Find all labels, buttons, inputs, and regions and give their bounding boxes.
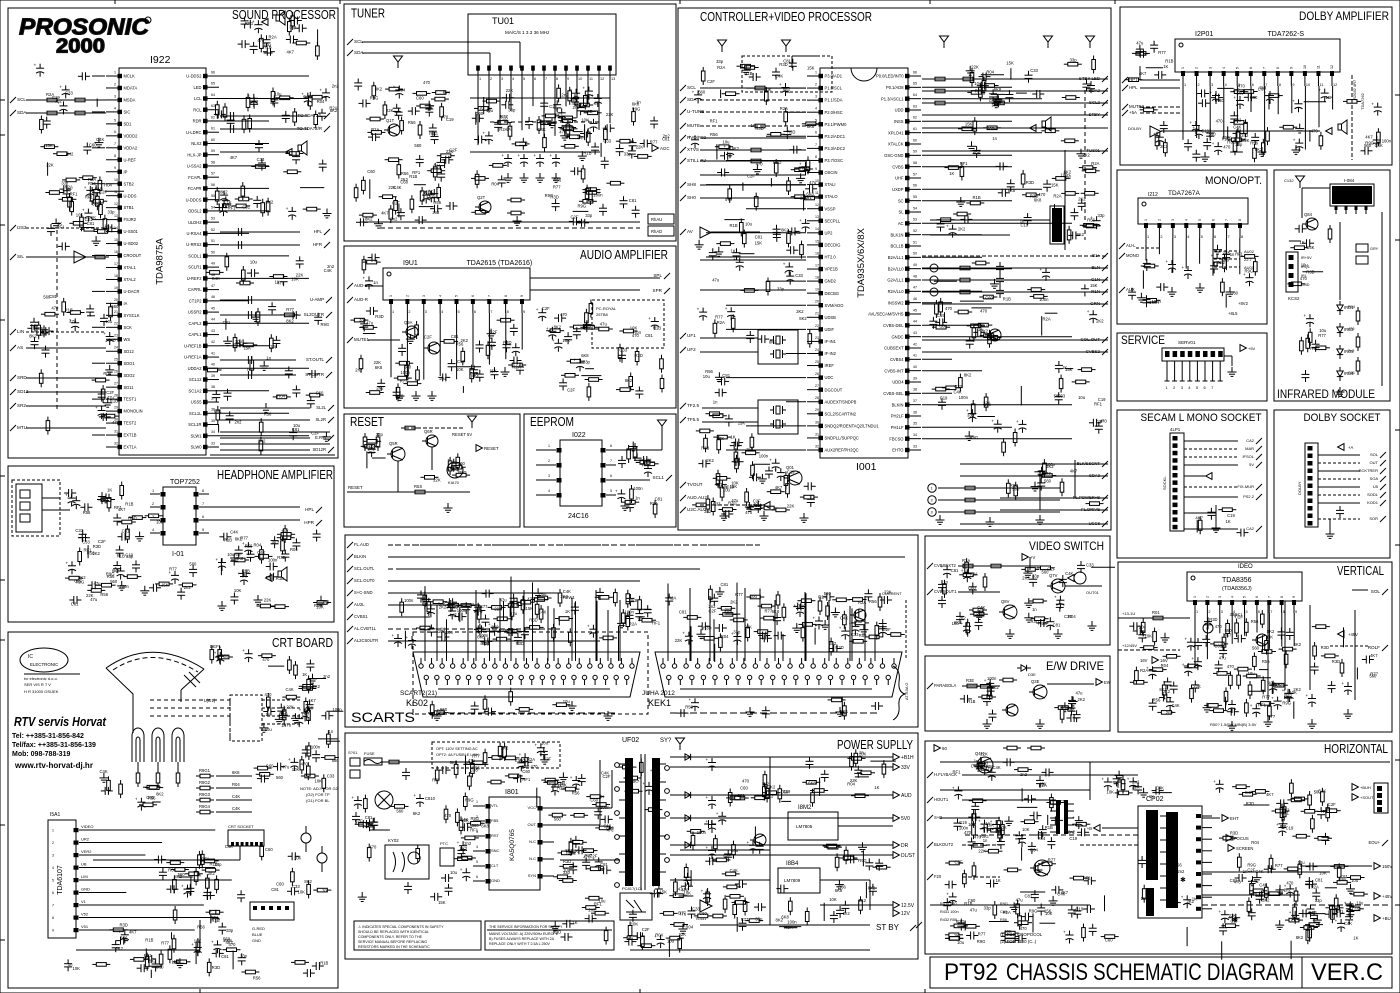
ground (1028, 598, 1030, 603)
net label AS (10, 345, 16, 351)
svg-text:22K: 22K (971, 65, 979, 70)
ground (718, 247, 720, 252)
svg-text:R3D: R3D (835, 645, 843, 650)
pin 3 (486, 834, 491, 839)
resistor R152 (696, 503, 706, 507)
wire (1215, 505, 1217, 523)
transistor Q4 (1256, 634, 1268, 646)
svg-text:+: + (769, 458, 772, 463)
svg-text:6K8: 6K8 (808, 781, 816, 786)
svg-text:1: 1 (815, 70, 817, 74)
diode D1 (1021, 665, 1027, 671)
svg-text:+: + (555, 107, 558, 112)
svg-text:6: 6 (1204, 385, 1207, 390)
transistor Q9A (406, 326, 418, 338)
svg-text:13: 13 (815, 215, 819, 219)
IC I9U1 (383, 268, 530, 300)
ground (431, 391, 433, 396)
wire (220, 419, 310, 421)
capacitor C191 (1210, 265, 1218, 267)
svg-text:KS02: KS02 (406, 698, 428, 708)
capacitor C84 (411, 107, 413, 115)
wire (1227, 126, 1229, 138)
pin 51 (203, 276, 208, 280)
net label LIN (10, 329, 16, 335)
resistor R174 (1086, 169, 1096, 173)
svg-text:2n2: 2n2 (368, 449, 376, 454)
svg-text:1K: 1K (1141, 896, 1146, 901)
svg-text:560: 560 (404, 364, 412, 369)
svg-text:XTALO: XTALO (825, 194, 838, 199)
ground (179, 958, 181, 963)
resistor R171 (1026, 193, 1036, 197)
connector arrow FOCUS (1226, 835, 1232, 842)
wire (774, 600, 776, 661)
electrolytic capacitor C169 (1019, 423, 1027, 425)
resistor R53 (281, 541, 285, 551)
svg-text:MONOLIN: MONOLIN (124, 409, 143, 414)
svg-text:6K8: 6K8 (806, 191, 814, 196)
svg-text:C132: C132 (1284, 178, 1294, 183)
capacitor C236 (983, 825, 985, 833)
svg-text:S+C-SND: S+C-SND (354, 590, 373, 595)
resistor R253 (1248, 685, 1252, 695)
svg-text:22K: 22K (386, 108, 394, 113)
svg-text:R1B: R1B (500, 115, 508, 120)
svg-text:2n2: 2n2 (588, 908, 596, 913)
svg-text:LCL: LCL (194, 96, 202, 101)
svg-text:C81: C81 (87, 221, 95, 226)
pin 9 (461, 664, 465, 668)
svg-text:DECBG: DECBG (825, 291, 840, 296)
svg-text:10u: 10u (541, 741, 549, 746)
net label SR2 (10, 403, 16, 409)
svg-text:SCART2(21): SCART2(21) (400, 690, 437, 697)
net label H.FLYBACK (927, 772, 933, 778)
svg-text:10u: 10u (723, 139, 731, 144)
resistor R12 (45, 312, 55, 316)
svg-text:2K2: 2K2 (1022, 576, 1030, 581)
svg-text:R1B: R1B (210, 862, 218, 867)
resistor R30 (266, 202, 270, 212)
svg-text:R56: R56 (1262, 659, 1270, 664)
svg-text:8K2: 8K2 (1294, 642, 1302, 647)
wire (93, 879, 232, 881)
svg-text:SCARTS: SCARTS (351, 709, 415, 725)
svg-text:4: 4 (1184, 219, 1188, 221)
resistor R10 (99, 205, 103, 215)
net label STBY-LED (1102, 76, 1108, 82)
svg-text:7: 7 (114, 142, 116, 146)
net label SD12 (10, 389, 16, 395)
svg-text:HT2.0: HT2.0 (825, 255, 837, 260)
svg-text:5V0: 5V0 (901, 816, 910, 822)
net label CVBS2 (1102, 349, 1108, 355)
svg-text:25: 25 (815, 360, 819, 364)
svg-text:EHTO: EHTO (892, 448, 903, 453)
resistor R232 (973, 608, 983, 612)
wire (372, 457, 386, 459)
svg-text:C60: C60 (985, 295, 993, 300)
resistor R24 (312, 95, 322, 99)
net label FIX-MUR (1256, 484, 1262, 490)
net label S+D (927, 815, 933, 821)
resistor R331 (468, 776, 472, 786)
svg-text:C19: C19 (457, 359, 465, 364)
svg-text:470: 470 (265, 692, 273, 697)
svg-text:25TB8: 25TB8 (596, 312, 609, 317)
ground (989, 517, 991, 522)
wire (308, 678, 326, 680)
connector arrow EW (1096, 679, 1102, 686)
resistor R330 (503, 747, 507, 757)
svg-text:U-DACR: U-DACR (124, 289, 140, 294)
svg-text:HPR: HPR (304, 520, 314, 525)
capacitor C247 (1087, 877, 1089, 885)
capacitor C92 (571, 98, 579, 100)
electrolytic capacitor C129 (644, 468, 652, 470)
net label S+C-SND (347, 590, 353, 596)
capacitor C42 (289, 432, 297, 434)
CRT funnel inner arc (113, 657, 198, 672)
circled pin (930, 288, 938, 296)
svg-text:+: + (1184, 637, 1187, 642)
svg-text:R77: R77 (1262, 695, 1270, 700)
svg-text:2K2: 2K2 (376, 386, 384, 391)
wire (76, 949, 200, 951)
svg-text:2n2: 2n2 (709, 604, 717, 609)
svg-text:TOP7252: TOP7252 (170, 479, 200, 486)
svg-text:30: 30 (815, 420, 819, 424)
pin 38 (614, 675, 618, 679)
svg-text:R04: R04 (1030, 848, 1038, 853)
svg-text:SNDPLL/SUPPQC: SNDPLL/SUPPQC (825, 436, 859, 441)
pin 11 (1316, 71, 1320, 76)
svg-text:+: + (1016, 419, 1019, 424)
resistor R52 (283, 529, 287, 539)
capacitor C209 (983, 697, 991, 699)
svg-text:CVBS-INT: CVBS-INT (884, 368, 904, 373)
capacitor C43 (292, 389, 300, 391)
capacitor C140 (733, 252, 741, 254)
svg-text:R2A: R2A (784, 925, 792, 930)
svg-text:NLX2: NLX2 (191, 141, 202, 146)
svg-text:CVBS4: CVBS4 (890, 357, 904, 362)
net label SOL (1380, 452, 1386, 458)
svg-text:5: 5 (458, 310, 460, 314)
capacitor C91 (494, 123, 502, 125)
svg-text:10K: 10K (563, 338, 571, 343)
svg-text:25: 25 (114, 358, 118, 362)
pin 2 (1345, 206, 1347, 214)
svg-text:R3D: R3D (516, 641, 524, 646)
svg-text:47u: 47u (679, 912, 687, 917)
wire (1268, 95, 1270, 109)
wire (388, 616, 430, 618)
svg-text:BLKIN: BLKIN (892, 402, 904, 407)
resistor R68 (286, 695, 296, 699)
svg-text:6K8: 6K8 (581, 353, 589, 358)
electrolytic capacitor C100 (536, 158, 544, 160)
capacitor C219 (1237, 635, 1239, 643)
capacitor C284 (777, 632, 779, 640)
pin 8 (601, 493, 606, 498)
svg-text:+: + (1072, 815, 1075, 820)
svg-text:LED: LED (194, 85, 202, 90)
resistor R4 (95, 255, 105, 259)
net label GRN (1102, 301, 1108, 307)
svg-text:R04: R04 (1251, 840, 1259, 845)
resistor R149 (717, 440, 721, 450)
svg-text:R2A: R2A (269, 34, 277, 39)
resistor R34 (225, 257, 229, 267)
svg-text:USSR2: USSR2 (188, 310, 202, 315)
wire (470, 151, 600, 153)
electrolytic capacitor C193 (1246, 277, 1254, 279)
resistor R25 (248, 119, 252, 129)
resistor R84 (420, 104, 430, 108)
resistor R175 (948, 166, 958, 170)
pin 3 (557, 478, 562, 483)
resistor R2 (47, 111, 57, 115)
svg-text:45: 45 (211, 306, 215, 310)
section box DOLBY AMPLIFIER (1120, 7, 1392, 165)
pin 15 (819, 243, 824, 247)
svg-text:5: 5 (114, 118, 116, 122)
svg-text:+: + (34, 63, 37, 68)
svg-text:AUDEXT/SNDPB: AUDEXT/SNDPB (825, 399, 857, 404)
capacitor C272 (477, 625, 479, 633)
pin 7 (74, 903, 79, 907)
capacitor C235 (1027, 795, 1029, 803)
pin 12 (724, 675, 728, 679)
wire (388, 604, 480, 606)
resistor R120 (461, 351, 465, 361)
svg-text:SVM/ADO: SVM/ADO (825, 303, 844, 308)
svg-text:R04: R04 (168, 867, 176, 872)
svg-text:R1B: R1B (653, 325, 661, 330)
resistor R9G2 (200, 786, 210, 790)
resistor R138 (751, 159, 761, 163)
wire (581, 110, 596, 112)
wire (93, 917, 219, 919)
ground (1215, 523, 1217, 528)
IC U1 (1138, 198, 1248, 224)
wire (711, 231, 760, 233)
svg-text:9: 9 (520, 295, 524, 297)
resistor R201 (1014, 486, 1018, 496)
svg-text:26: 26 (114, 370, 118, 374)
svg-text:C33: C33 (82, 540, 90, 545)
svg-text:1: 1 (1181, 67, 1185, 69)
svg-text:1K: 1K (107, 488, 112, 493)
resistor R217 (1254, 262, 1258, 272)
pin 1 (419, 664, 423, 668)
resistor R37 (240, 281, 250, 285)
svg-text:P0.0/LED/INT0: P0.0/LED/INT0 (876, 74, 904, 79)
pin 34 (905, 85, 910, 89)
svg-text:R1B: R1B (1045, 825, 1053, 830)
resistor R275 (1311, 819, 1315, 829)
electrolytic capacitor C134 (694, 94, 702, 96)
svg-text:R3D: R3D (375, 314, 383, 319)
resistor R6 (73, 222, 83, 226)
electrolytic capacitor C35 (288, 210, 296, 212)
svg-text:19: 19 (114, 286, 118, 290)
capacitor C195 (1302, 373, 1310, 375)
wire (1271, 682, 1273, 694)
svg-text:47u: 47u (1219, 656, 1227, 661)
svg-text:22: 22 (114, 322, 118, 326)
resistor R302 (535, 598, 545, 602)
electrolytic capacitor C232 (992, 824, 1000, 826)
svg-text:1: 1 (114, 70, 116, 74)
svg-text:47u: 47u (712, 278, 720, 283)
pin 2 (487, 66, 491, 71)
section box VIDEO SWITCH (925, 536, 1110, 645)
resistor R96 (570, 135, 580, 139)
svg-text:R04: R04 (398, 88, 406, 93)
wire (922, 78, 1108, 80)
connector arrow 150V (1374, 863, 1380, 870)
ground (1034, 482, 1036, 487)
IC I022 24C16 (560, 440, 602, 506)
svg-text:SDA3: SDA3 (1089, 473, 1101, 478)
svg-text:62: 62 (913, 116, 917, 120)
svg-text:RF1: RF1 (1094, 402, 1103, 407)
svg-text:R77: R77 (1318, 333, 1326, 338)
svg-text:100n: 100n (1382, 139, 1392, 144)
svg-text:C81: C81 (1053, 622, 1061, 627)
svg-text:10K: 10K (294, 856, 302, 861)
svg-text:18: 18 (815, 275, 819, 279)
boxed net RhAU (648, 214, 674, 224)
wire (26, 256, 106, 258)
svg-text:R9G3: R9G3 (199, 792, 211, 797)
svg-text:2n2: 2n2 (332, 84, 340, 89)
resistor R55 (317, 601, 327, 605)
svg-text:CA2: CA2 (1246, 438, 1255, 443)
capacitor C238 (1036, 779, 1044, 781)
capacitor C117 (491, 371, 499, 373)
svg-text:3: 3 (815, 95, 817, 99)
svg-text:6K8: 6K8 (1275, 682, 1283, 687)
svg-text:C81: C81 (71, 602, 79, 607)
electrolytic capacitor C131 (617, 493, 625, 495)
svg-text:DGCOUT: DGCOUT (825, 387, 843, 392)
svg-text:+: + (1127, 776, 1130, 781)
resistor R326 (434, 711, 444, 715)
ground (1064, 702, 1066, 707)
svg-text:+: + (82, 208, 85, 213)
resistor R63 (219, 655, 229, 659)
svg-text:10K: 10K (76, 212, 84, 217)
svg-text:R77: R77 (432, 777, 440, 782)
svg-text:4K7: 4K7 (272, 540, 280, 545)
capacitor C90 (425, 108, 433, 110)
resistor R335 (483, 753, 487, 763)
capacitor C233 (997, 841, 1005, 843)
capacitor C223 (1202, 638, 1210, 640)
svg-text:RESET: RESET (348, 485, 363, 490)
pin 7 (601, 478, 606, 483)
svg-text:EHT: EHT (1230, 816, 1239, 821)
svg-text:40: 40 (211, 363, 215, 367)
resistor R2A (47, 98, 57, 102)
pin 27 (811, 664, 815, 668)
svg-text:SOR: SOR (1369, 516, 1378, 521)
svg-text:XTALCK: XTALCK (888, 142, 904, 147)
resistor R179 (960, 290, 970, 294)
resistor R192 (972, 328, 976, 338)
svg-text:2K2: 2K2 (1163, 689, 1171, 694)
svg-text:C19: C19 (783, 789, 791, 794)
svg-text:6: 6 (52, 891, 54, 895)
svg-text:RESET: RESET (484, 446, 499, 451)
svg-text:C81: C81 (292, 427, 300, 432)
pin 20 (819, 303, 824, 307)
svg-text:65: 65 (913, 82, 917, 86)
svg-text:33p: 33p (716, 59, 724, 64)
svg-text:+: + (946, 891, 949, 896)
svg-text:R3D: R3D (1246, 801, 1254, 806)
svg-text:52: 52 (211, 228, 215, 232)
svg-text:AC: AC (898, 221, 904, 226)
svg-text:C19: C19 (1227, 513, 1235, 518)
pin 25 (819, 363, 824, 367)
svg-text:H R 31000 OSIJEK: H R 31000 OSIJEK (24, 689, 59, 694)
svg-text:2n2: 2n2 (1234, 117, 1242, 122)
capacitor C192 (1222, 253, 1230, 255)
wire (1184, 528, 1238, 530)
svg-text:2: 2 (490, 77, 492, 81)
svg-text:470: 470 (745, 510, 753, 515)
wire (1249, 677, 1271, 679)
svg-text:Q84: Q84 (1304, 212, 1313, 217)
pin 2 (74, 841, 79, 845)
svg-text:560: 560 (414, 143, 422, 148)
svg-text:+12/45V: +12/45V (1122, 643, 1137, 648)
svg-text:+: + (813, 616, 816, 621)
pin 49 (905, 255, 910, 259)
connector arrow (1206, 473, 1212, 480)
pin 24 (794, 675, 798, 679)
pin 63 (905, 414, 910, 418)
svg-text:BLK1N: BLK1N (891, 232, 904, 237)
electrolytic capacitor C227 (1344, 686, 1352, 688)
resistor R167 (1086, 224, 1096, 228)
svg-text:DOLBY: DOLBY (1297, 481, 1302, 495)
svg-text:470: 470 (1286, 880, 1294, 885)
electrolytic capacitor C67 (245, 653, 253, 655)
svg-text:61: 61 (913, 127, 917, 131)
resistor R260 (988, 849, 998, 853)
svg-text:R04: R04 (277, 393, 285, 398)
svg-text:R04: R04 (317, 99, 325, 104)
pin 11 (118, 193, 123, 197)
electrolytic capacitor C14 (254, 24, 262, 26)
pin 35 (857, 664, 861, 668)
pin 5 (74, 878, 79, 882)
wire (922, 303, 1108, 305)
ground (1229, 287, 1231, 292)
capacitor C105 (650, 120, 658, 122)
electrolytic capacitor C214 (1269, 684, 1277, 686)
ground (436, 711, 438, 716)
logo oval ELECTRONIC (20, 648, 68, 672)
electrolytic capacitor C190 (1213, 257, 1221, 259)
capacitor C23 (229, 112, 231, 120)
